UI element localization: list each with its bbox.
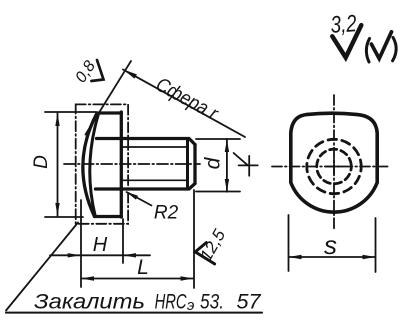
end view outline (291, 113, 377, 212)
dimension D extension bottom (45, 216, 83, 218)
note underline shelf (6, 312, 262, 314)
svg-text:э: э (187, 297, 194, 314)
svg-text:d: d (202, 156, 225, 169)
spherical head outer arc (83, 113, 97, 217)
arrowhead L left (81, 276, 94, 280)
arrowhead H right (123, 253, 136, 257)
note leader line (6, 223, 78, 311)
thread minor line bottom (122, 179, 189, 181)
end view vertical centerline (333, 95, 335, 229)
extension line left (head apex) (80, 200, 82, 287)
svg-text:12,5: 12,5 (196, 226, 229, 265)
leader R2 (127, 192, 152, 206)
arrowhead D bottom (55, 203, 59, 216)
svg-text:HRC: HRC (155, 291, 188, 314)
arrowhead d bottom (225, 179, 229, 192)
parenthesis left (366, 39, 369, 63)
dimension H line (50, 254, 150, 256)
dimension D line (57, 113, 59, 216)
dimension d extension top (196, 138, 240, 140)
svg-text:D: D (31, 155, 52, 169)
roughness symbol 3.2 check (332, 25, 361, 57)
arrowhead D top (55, 113, 59, 126)
dimension s line (289, 256, 376, 258)
arrowhead s left (289, 255, 302, 259)
dimension H extension right (122, 219, 124, 263)
arrowhead R2 leader (126, 192, 139, 200)
dimension s extension left (288, 215, 290, 271)
dimension L line (81, 278, 194, 280)
shank top outline (97, 139, 196, 145)
svg-text:3,2: 3,2 (330, 10, 358, 39)
arrowhead d top (225, 139, 229, 152)
hidden thread circle inner (317, 149, 352, 184)
head bottom edge (95, 215, 122, 218)
shank end face (193, 145, 196, 184)
svg-text:Сфера r: Сфера r (152, 74, 222, 126)
end view horizontal centerline (272, 166, 389, 168)
dimension D extension top (45, 111, 96, 113)
radius line to sphere center (234, 153, 248, 165)
shank bottom outline (96, 184, 196, 190)
arrowhead sphere leader (123, 70, 137, 79)
dimension L extension right (193, 190, 195, 288)
arrowhead s right (363, 255, 376, 259)
arrowhead H left (68, 253, 81, 257)
svg-text:57: 57 (237, 291, 262, 314)
dimension d line (226, 139, 228, 192)
roughness check 0.8 (91, 60, 103, 81)
head top edge (97, 111, 121, 114)
dimension s extension right (375, 218, 377, 272)
center cross (326, 159, 342, 175)
hidden thread circle outer (307, 139, 361, 193)
chamfer start line (186, 139, 189, 190)
svg-text:s: s (324, 230, 337, 260)
dimension d extension bottom (196, 191, 240, 193)
spherical head inner arc (flat intersection) (90, 114, 99, 215)
small check in parens (371, 32, 391, 59)
thread minor line top (122, 146, 189, 148)
roughness check 12.5 (195, 243, 214, 264)
phantom dash-dot box around head (76, 104, 128, 223)
svg-text:H: H (93, 234, 108, 256)
arrowhead L right (181, 276, 194, 280)
svg-text:Закалить: Закалить (34, 291, 145, 314)
svg-text:R2: R2 (154, 203, 179, 224)
sphere tangent extension line (86, 61, 132, 135)
svg-text:53.: 53. (200, 291, 224, 314)
sphere center cross (239, 156, 258, 176)
svg-text:L: L (137, 256, 149, 279)
axis centerline of side view (64, 163, 200, 165)
head right face (120, 112, 123, 217)
leader line Sfera r (123, 70, 245, 138)
parenthesis right (393, 37, 397, 60)
